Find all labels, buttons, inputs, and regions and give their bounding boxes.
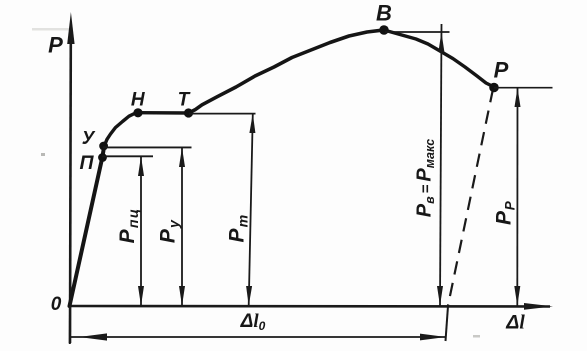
- necking curve B to R: [384, 30, 494, 87]
- point T (yield): [184, 108, 193, 117]
- dimension line P_pc: [140, 157, 142, 306]
- level line at R: [494, 87, 553, 89]
- dimension line P_v = P_max: [440, 24, 442, 306]
- svg-text:П: П: [79, 152, 94, 174]
- stress-strain curve: elastic line O to P (proportionality): [70, 146, 105, 306]
- dimension line P_u: [181, 148, 183, 306]
- svg-text:Н: Н: [131, 90, 146, 111]
- level line at T: [189, 113, 256, 115]
- svg-text:0: 0: [51, 294, 62, 315]
- extension line below axis at end of dashed line: [446, 306, 449, 341]
- dimension line P_t: [249, 114, 253, 306]
- yield plateau N to T: [139, 111, 189, 115]
- dimension line P_r: [516, 88, 518, 306]
- dimension line delta-l0 (bottom): [71, 336, 447, 338]
- curve knee U to N: [104, 113, 138, 146]
- svg-text:У: У: [82, 127, 96, 148]
- svg-text:Δl: Δl: [505, 312, 525, 334]
- delta-l axis arrowhead: [524, 303, 553, 310]
- P axis (vertical): [69, 40, 72, 343]
- svg-text:Р: Р: [48, 33, 63, 58]
- level line at U: [103, 146, 192, 148]
- svg-text:Р: Р: [494, 58, 509, 83]
- point N (upper yield): [133, 108, 142, 117]
- faint scan streak top-left: [32, 28, 70, 31]
- svg-text:Т: Т: [178, 90, 191, 111]
- vertical axis extension below origin: [69, 306, 71, 344]
- P axis arrowhead: [67, 12, 74, 44]
- hardening curve T to B: [189, 30, 385, 113]
- level line at B: [385, 31, 450, 33]
- dashed unloading line from R to axis: [448, 89, 493, 306]
- level line at P (proportionality): [102, 155, 153, 157]
- point R (rupture): [489, 83, 499, 93]
- delta-l axis (horizontal): [69, 305, 550, 308]
- svg-text:В: В: [376, 1, 392, 26]
- point B (ultimate): [379, 25, 389, 35]
- point U (elastic): [99, 142, 108, 151]
- faint scan speck left: [41, 153, 45, 156]
- faint scan dash bottom: [473, 335, 480, 338]
- point P (proportionality): [98, 153, 107, 162]
